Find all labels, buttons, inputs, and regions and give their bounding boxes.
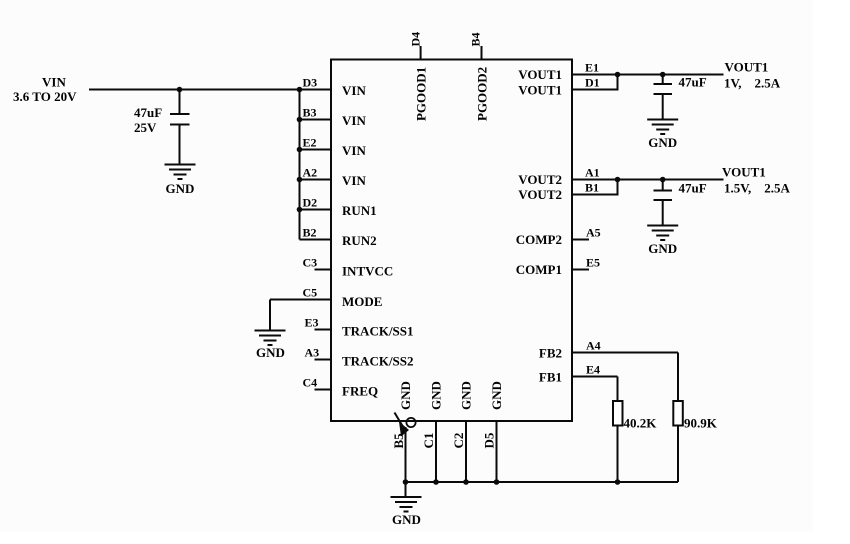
svg-text:A2: A2 xyxy=(303,166,318,180)
svg-text:C1: C1 xyxy=(421,433,436,449)
svg-text:A4: A4 xyxy=(586,339,601,353)
wire pin E4 FB1 to R1 xyxy=(572,377,618,402)
capacitor C_IN 47uF 25V xyxy=(134,90,190,165)
node bus junctions xyxy=(297,87,303,213)
ground (MODE) xyxy=(255,331,286,361)
svg-text:VOUT2: VOUT2 xyxy=(518,172,562,187)
svg-text:E3: E3 xyxy=(305,316,319,330)
svg-text:47uF: 47uF xyxy=(679,75,707,90)
wire VIN main xyxy=(89,89,331,91)
svg-text:VOUT1: VOUT1 xyxy=(722,165,766,180)
resistor R2 90.9K xyxy=(673,401,717,482)
svg-text:RUN1: RUN1 xyxy=(342,203,377,218)
svg-text:MODE: MODE xyxy=(342,294,382,309)
resistor R1 40.2K xyxy=(613,401,657,482)
wire pin B5 stub xyxy=(405,427,407,482)
svg-text:B5: B5 xyxy=(391,433,406,449)
svg-text:COMP2: COMP2 xyxy=(516,232,562,247)
op-amp U1 (IC body) xyxy=(331,60,572,422)
svg-text:D1: D1 xyxy=(585,76,600,90)
svg-text:E4: E4 xyxy=(586,363,600,377)
svg-text:C5: C5 xyxy=(303,286,318,300)
wire pin E2 stub xyxy=(300,149,332,151)
node VOUT1 label xyxy=(724,60,781,91)
node junction cap VOUT1 xyxy=(660,72,666,78)
node junction D1/E1 xyxy=(615,72,621,78)
svg-text:GND: GND xyxy=(398,381,413,410)
svg-text:RUN2: RUN2 xyxy=(342,233,377,248)
svg-text:90.9K: 90.9K xyxy=(684,416,718,431)
svg-text:GND: GND xyxy=(648,135,677,150)
node junction B1/A1 xyxy=(615,177,621,183)
svg-text:TRACK/SS2: TRACK/SS2 xyxy=(342,354,414,369)
svg-text:D3: D3 xyxy=(303,76,318,90)
svg-text:A3: A3 xyxy=(305,346,320,360)
svg-text:VOUT1: VOUT1 xyxy=(725,60,769,75)
svg-text:C2: C2 xyxy=(451,433,466,449)
svg-text:C3: C3 xyxy=(303,256,318,270)
wire pin C3 stub xyxy=(315,269,332,271)
svg-text:40.2K: 40.2K xyxy=(624,416,658,431)
svg-text:B1: B1 xyxy=(585,181,599,195)
node VOUT2 output label xyxy=(722,165,790,196)
svg-text:E2: E2 xyxy=(303,136,317,150)
svg-text:B3: B3 xyxy=(303,106,317,120)
svg-text:B2: B2 xyxy=(303,226,317,240)
svg-text:25V: 25V xyxy=(134,120,157,135)
wire bottom ground bus xyxy=(406,481,679,483)
svg-text:47uF: 47uF xyxy=(134,105,162,120)
svg-text:GND: GND xyxy=(429,381,444,410)
node bus junctions bottom xyxy=(403,479,621,485)
ground (bottom bus) xyxy=(391,497,422,527)
wire pin D2 stub xyxy=(300,209,332,211)
svg-text:A1: A1 xyxy=(585,166,600,180)
svg-text:VOUT1: VOUT1 xyxy=(518,67,562,82)
svg-text:FB1: FB1 xyxy=(539,370,562,385)
svg-text:E5: E5 xyxy=(586,256,600,270)
wire pin B4 stub (top) xyxy=(481,46,483,60)
svg-text:VOUT1: VOUT1 xyxy=(518,83,562,98)
svg-text:C4: C4 xyxy=(303,376,318,390)
svg-text:VOUT2: VOUT2 xyxy=(518,187,562,202)
wire pin C2 stub xyxy=(465,421,467,482)
wire pin A3 stub xyxy=(315,359,332,361)
svg-text:A5: A5 xyxy=(586,226,601,240)
wire pin B3 stub xyxy=(300,119,332,121)
svg-text:D4: D4 xyxy=(409,32,423,47)
svg-text:VIN: VIN xyxy=(42,75,66,90)
wire GND bus to earth xyxy=(405,482,407,497)
svg-text:B4: B4 xyxy=(469,32,483,46)
wire pin A4 FB2 to R2 xyxy=(572,353,678,402)
wire pin C4 stub xyxy=(315,389,332,391)
svg-text:VIN: VIN xyxy=(342,83,366,98)
wire left VIN bus xyxy=(299,90,301,240)
wire pin E3 stub xyxy=(315,329,332,331)
svg-text:3.6 TO 20V: 3.6 TO 20V xyxy=(13,89,77,104)
svg-text:1.5V, 2.5A: 1.5V, 2.5A xyxy=(724,181,790,196)
ground (input cap) xyxy=(165,165,196,197)
wire VOUT1 output (E1) xyxy=(572,74,724,76)
svg-text:GND: GND xyxy=(459,381,474,410)
svg-text:GND: GND xyxy=(166,181,195,196)
svg-text:GND: GND xyxy=(489,381,504,410)
pin B5 no-connect marker xyxy=(395,413,416,437)
svg-text:D2: D2 xyxy=(303,196,318,210)
node VIN label xyxy=(13,75,77,105)
svg-text:TRACK/SS1: TRACK/SS1 xyxy=(342,324,414,339)
node junction at input cap xyxy=(177,87,183,93)
wire pin B2 stub xyxy=(300,239,332,241)
wire pin B1 stub xyxy=(572,180,618,196)
wire pin C5 MODE to ground xyxy=(270,300,331,331)
ground (C_OUT1) xyxy=(647,120,678,151)
capacitor C_OUT2 47uF xyxy=(654,180,707,226)
svg-text:1V, 2.5A: 1V, 2.5A xyxy=(724,76,781,91)
ground (C_OUT2) xyxy=(647,226,678,257)
wire pin D5 stub xyxy=(496,421,498,482)
wire pin D1 stub xyxy=(572,75,618,91)
wire pin C1 stub xyxy=(435,421,437,482)
svg-text:INTVCC: INTVCC xyxy=(342,264,393,279)
svg-text:COMP1: COMP1 xyxy=(516,262,562,277)
svg-text:GND: GND xyxy=(648,241,677,256)
node junction cap VOUT2 xyxy=(660,177,666,183)
svg-text:47uF: 47uF xyxy=(679,181,707,196)
wire pin D4 stub (top) xyxy=(420,46,422,60)
svg-text:FB2: FB2 xyxy=(539,346,562,361)
svg-text:GND: GND xyxy=(256,345,285,360)
svg-text:D5: D5 xyxy=(482,432,497,448)
wire pin E5 stub xyxy=(572,269,589,271)
svg-text:FREQ: FREQ xyxy=(342,384,378,399)
svg-text:VIN: VIN xyxy=(342,173,366,188)
wire pin A5 stub xyxy=(572,239,589,241)
wire pin A2 stub xyxy=(300,179,332,181)
svg-text:PGOOD2: PGOOD2 xyxy=(475,67,490,121)
svg-text:VIN: VIN xyxy=(342,143,366,158)
svg-text:GND: GND xyxy=(392,512,421,527)
wire VOUT2 output (A1) xyxy=(572,179,724,181)
svg-text:E1: E1 xyxy=(585,61,599,75)
capacitor C_OUT1 47uF xyxy=(654,75,707,120)
svg-text:PGOOD1: PGOOD1 xyxy=(414,67,429,121)
svg-text:VIN: VIN xyxy=(342,113,366,128)
